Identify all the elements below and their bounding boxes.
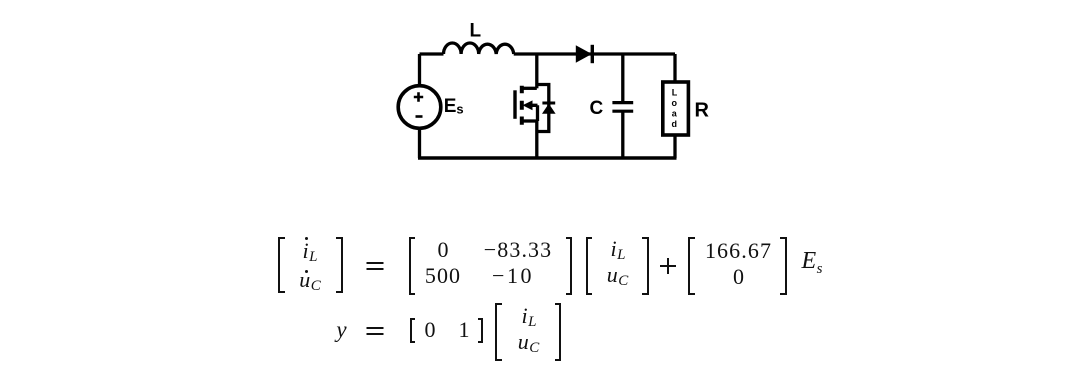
node eq1 input Es: [801, 248, 822, 278]
svg-text:E: E: [444, 96, 457, 117]
node eq1 B vector left bracket: [688, 237, 695, 295]
node eq2 C12: [459, 317, 470, 343]
node eq2 x vector right bracket: [555, 303, 562, 361]
node eq1 state vector left bracket: [278, 237, 285, 294]
node eq1 x entry uC: [607, 262, 629, 290]
mosfet body diode cathode bar: [542, 102, 555, 105]
wire mosfet source vertical: [535, 121, 538, 158]
svg-text:C: C: [590, 98, 604, 119]
source plus sign: [414, 92, 423, 101]
node eq2 C matrix right bracket: [478, 318, 483, 343]
wire left vertical upper: [418, 54, 421, 86]
node eq1 A11: [438, 237, 449, 263]
mosfet Q1 drain contact: [522, 87, 537, 90]
wire capacitor top: [621, 54, 624, 102]
node eq1 A matrix right bracket: [566, 237, 573, 295]
node eq1 A22: [492, 263, 534, 289]
wire load bottom: [673, 135, 676, 158]
node eq1 x vector right bracket: [642, 237, 649, 295]
wire capacitor bottom: [621, 112, 624, 158]
node eq2 x entry uC: [518, 329, 540, 357]
mosfet Q1 gate bar: [513, 90, 516, 119]
node eq1 state vector entry iL-dot: [303, 238, 318, 266]
mosfet Q1 body-diode loop wires: [537, 85, 549, 132]
node eq1 A21: [425, 263, 461, 289]
svg-text:a: a: [672, 109, 678, 119]
node eq1 plus: [660, 258, 676, 274]
wire load top: [673, 54, 676, 82]
node eq1 B1: [705, 238, 772, 264]
node eq1 state vector right bracket: [336, 237, 343, 294]
wire left vertical lower: [418, 129, 421, 159]
capacitor C plates: [612, 103, 633, 112]
node eq1 A12: [484, 237, 553, 263]
wire bottom rail: [418, 156, 677, 159]
svg-text:L: L: [470, 21, 482, 42]
diode D1 cathode bar: [591, 45, 594, 63]
voltage source Es circle: [398, 86, 441, 129]
node eq1 equals: [366, 262, 383, 270]
inductor L: [444, 43, 514, 54]
svg-text:o: o: [672, 98, 678, 108]
wire top-left: [420, 52, 444, 55]
node eq1 x entry iL: [611, 236, 626, 264]
node eq2 x entry iL: [522, 303, 537, 331]
svg-text:L: L: [672, 88, 678, 98]
node eq1 B vector right bracket: [780, 237, 787, 295]
wire mosfet drain vertical: [535, 54, 538, 88]
mosfet body diode triangle: [542, 104, 556, 114]
node eq1 x vector left bracket: [586, 237, 593, 295]
mosfet Q1 arrow head: [523, 100, 533, 110]
node eq1 state vector entry uC-dot: [299, 267, 321, 295]
mosfet Q1 source contact: [522, 119, 537, 122]
node eq2 equals: [366, 327, 383, 335]
load resistor R box: [663, 82, 689, 135]
node eq1 B2: [733, 264, 744, 290]
node eq2 C11: [425, 317, 436, 343]
node eq2 x vector left bracket: [495, 303, 502, 361]
diode D1 anode triangle: [576, 45, 592, 62]
node eq1 A matrix left bracket: [409, 237, 416, 295]
node eq2 output y: [336, 317, 346, 343]
svg-text:R: R: [695, 100, 710, 122]
mosfet Q1 bulk wire with arrow: [530, 105, 538, 121]
svg-text:s: s: [456, 102, 463, 117]
mosfet Q1 channel segments: [520, 86, 524, 125]
node eq2 C matrix left bracket: [410, 318, 415, 343]
source minus sign: [416, 115, 423, 118]
wire top-middle: [514, 52, 675, 55]
svg-text:d: d: [672, 119, 678, 129]
